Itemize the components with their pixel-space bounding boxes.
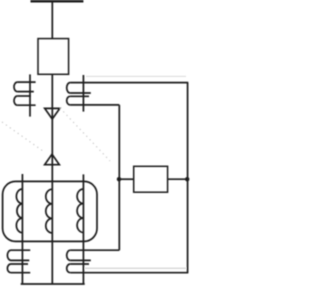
- winding W2 bumps: [46, 189, 53, 233]
- wire junction to box: [119, 178, 133, 180]
- arrester triangle up: [45, 154, 60, 165]
- left coil hairpin lines: [17, 82, 35, 105]
- wire tap to regulator junction vertical: [118, 105, 120, 250]
- bus bar: [31, 0, 84, 2]
- winding W1 vertical: [21, 174, 23, 284]
- regulator box: [134, 166, 168, 192]
- wire bus to breaker: [51, 1, 53, 38]
- ghost artifact line bottom: [85, 267, 186, 269]
- arrester triangle down: [45, 108, 60, 119]
- right coil hairpin lines + tap wires: [70, 83, 188, 105]
- right secondary arcs: [67, 250, 71, 273]
- winding W3 bumps: [77, 189, 83, 233]
- junction dot left: [117, 177, 121, 181]
- left secondary hairpin lines: [11, 250, 30, 273]
- ghost artifact line top: [86, 75, 186, 77]
- junction dot right: [185, 177, 189, 181]
- right secondary hairpin lines + tap wires: [70, 250, 188, 273]
- wire main feeder vertical: [51, 74, 53, 284]
- dashed linkage right: [60, 108, 110, 161]
- dashed linkage left: [2, 122, 45, 153]
- left coil vertical: [29, 74, 31, 116]
- right coil arcs: [67, 83, 70, 105]
- left coil arcs: [14, 82, 17, 105]
- wire box to right rail: [168, 178, 188, 180]
- transformer tank outline: [3, 181, 97, 241]
- wire right rail vertical: [187, 83, 189, 273]
- winding W1 bumps: [16, 189, 22, 233]
- bottom bus: [21, 283, 85, 285]
- winding W3 vertical: [82, 174, 84, 284]
- right coil vertical: [82, 75, 84, 112]
- breaker box: [38, 39, 69, 75]
- left secondary arcs: [7, 250, 11, 273]
